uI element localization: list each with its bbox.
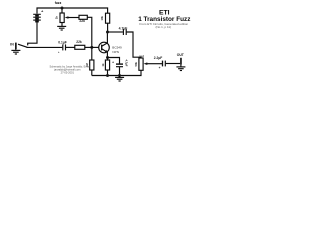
svg-text:BC549: BC549	[112, 45, 122, 49]
wire C2 to volume pot	[127, 32, 141, 58]
wire C3 to rail	[119, 67, 121, 75]
svg-text:1k: 1k	[55, 16, 59, 19]
svg-text:2.2µF: 2.2µF	[154, 56, 163, 60]
wire R3 to collector node	[107, 23, 109, 32]
wire C4 to output jack	[166, 63, 180, 65]
ground output jack	[176, 65, 185, 71]
wire emitter node to C3	[108, 58, 120, 64]
wire input signal	[27, 46, 63, 48]
wire R5 leads	[107, 58, 109, 61]
wire collector to C2	[108, 31, 123, 33]
wire battery negative down	[28, 22, 37, 45]
wire R4 to rail	[91, 70, 93, 76]
svg-text:fuzz: fuzz	[55, 1, 62, 5]
potentiometer VR1 fuzz body	[60, 13, 64, 23]
wire C1 to R1	[66, 46, 75, 48]
wire bottom rail	[92, 70, 141, 75]
node VCC junction dot	[61, 7, 64, 10]
svg-text:10k: 10k	[100, 15, 104, 20]
ground below pot VR1	[57, 23, 66, 31]
input jack J1	[15, 43, 17, 49]
svg-text:+: +	[58, 50, 60, 54]
svg-text:22k: 22k	[76, 40, 82, 44]
node base junction dot	[90, 46, 93, 49]
capacitor C1 0.1uF	[63, 44, 66, 50]
resistor R3 collector vertical	[106, 13, 110, 23]
potentiometer VR2 volume body	[139, 58, 143, 70]
svg-text:0.1µF: 0.1µF	[58, 40, 67, 44]
transistor Q1 base bar	[101, 45, 103, 51]
transistor Q1 emitter arrow	[105, 50, 108, 53]
battery B1	[33, 14, 41, 21]
resistor R2 22k horizontal	[79, 15, 87, 19]
node rail dot C3	[118, 74, 121, 77]
svg-text:(No 1, p 11): (No 1, p 11)	[155, 25, 171, 29]
capacitor C3 4.7uF electrolytic	[116, 64, 123, 67]
svg-text:50k: 50k	[134, 61, 138, 66]
output jack J2	[180, 58, 182, 65]
pot VR2 wiper arrow	[144, 62, 148, 65]
switch blade input jack	[18, 44, 27, 47]
transistor Q1 collector	[102, 32, 108, 46]
svg-text:+: +	[112, 60, 114, 64]
ground main rail	[115, 76, 124, 82]
svg-text:27-05-2001: 27-05-2001	[61, 71, 75, 75]
transistor Q1 circle	[99, 42, 110, 53]
svg-text:22k: 22k	[79, 19, 85, 23]
capacitor C2 4.7uF	[123, 29, 126, 35]
capacitor C4 2.2uF output	[163, 61, 166, 67]
resistor R5 emitter vertical	[105, 60, 109, 70]
svg-text:NPN: NPN	[112, 50, 119, 54]
svg-text:vol: vol	[139, 54, 144, 58]
wire R2 to base node	[87, 17, 92, 60]
resistor R1 22k horizontal	[75, 45, 85, 49]
node rail dot R5	[106, 74, 109, 77]
svg-text:IN: IN	[10, 42, 14, 46]
svg-text:4.7µF: 4.7µF	[125, 60, 129, 67]
node emitter junction dot	[106, 56, 109, 59]
ground input jack	[11, 49, 20, 54]
transistor Q1 emitter	[102, 49, 108, 58]
wire top rail	[37, 8, 108, 14]
svg-text:OUT: OUT	[177, 53, 185, 57]
wire R1 to base	[85, 46, 99, 48]
node collector junction dot	[106, 31, 109, 34]
svg-text:+: +	[159, 66, 161, 70]
svg-text:1k: 1k	[101, 63, 105, 66]
resistor R4 base-ground vertical	[90, 60, 94, 70]
pot VR1 wiper arrow	[65, 16, 69, 19]
svg-text:4.7µF: 4.7µF	[119, 26, 128, 30]
wire pot top	[61, 8, 63, 13]
